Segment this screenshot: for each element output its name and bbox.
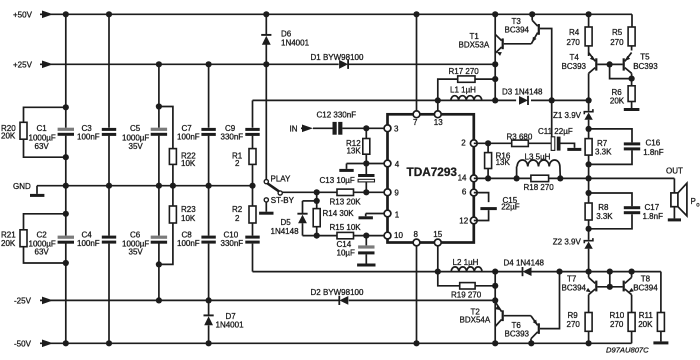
- svg-text:IN: IN: [290, 124, 298, 133]
- wire -25V rail: [40, 299, 495, 301]
- node R21 taps: [63, 211, 69, 266]
- pin 8: [413, 239, 420, 246]
- svg-text:D4 1N4148: D4 1N4148: [504, 258, 545, 267]
- svg-text:R3 680: R3 680: [507, 132, 533, 141]
- wire D5 to pin10 wire: [302, 223, 304, 235]
- svg-text:14: 14: [458, 174, 467, 183]
- node pin7 rail junction: [413, 11, 419, 17]
- svg-text:R13 20K: R13 20K: [330, 197, 362, 206]
- node OUT junctions: [485, 175, 563, 181]
- pin 3: [384, 125, 391, 132]
- node R9 rail junction: [586, 340, 592, 346]
- svg-text:9: 9: [394, 188, 399, 197]
- svg-text:Z2 3.9V: Z2 3.9V: [553, 238, 582, 247]
- pin 13: [434, 111, 441, 118]
- node R22 gnd junction: [170, 183, 176, 189]
- resistor R16: [485, 143, 492, 178]
- svg-text:3.3K: 3.3K: [596, 212, 613, 221]
- label R2: [232, 205, 243, 223]
- resistor R6: [628, 79, 635, 108]
- diode D3: [519, 96, 528, 105]
- wire speaker gnd stub: [673, 207, 675, 219]
- label pin4: [395, 160, 400, 169]
- svg-text:100nF: 100nF: [177, 133, 200, 142]
- wire C7/C8 column: [208, 64, 210, 300]
- label pin10: [394, 231, 403, 240]
- wire T4-T5 base: [597, 63, 622, 65]
- label C2: [29, 231, 56, 257]
- label C17: [643, 203, 664, 221]
- label R16: [496, 151, 511, 167]
- node -25V arrow: [42, 297, 53, 305]
- label pin8: [414, 230, 419, 239]
- svg-text:R10: R10: [610, 311, 625, 320]
- label R19: [451, 291, 482, 300]
- wire upper feed: [253, 99, 589, 101]
- wire T1 column: [494, 14, 496, 100]
- wire C3/C4 column: [108, 14, 110, 343]
- label R13: [330, 197, 362, 206]
- label C10: [221, 231, 244, 249]
- svg-text:270: 270: [567, 320, 581, 329]
- wire R7 to OUT: [588, 164, 590, 193]
- svg-text:3: 3: [394, 124, 399, 133]
- label L1: [450, 86, 476, 95]
- resistor R21: [20, 214, 66, 263]
- svg-text:R23: R23: [181, 205, 196, 214]
- pin 7: [413, 111, 420, 118]
- svg-text:1N4001: 1N4001: [216, 321, 245, 330]
- svg-text:8: 8: [414, 230, 419, 239]
- wire T2 column: [494, 272, 496, 344]
- svg-text:2: 2: [235, 159, 240, 168]
- switch PLAY contact: [264, 180, 268, 184]
- node R7 bottom junction: [586, 161, 592, 167]
- ground ST-BY: [259, 212, 273, 215]
- wire C11 to gnd: [561, 143, 575, 148]
- svg-text:+50V: +50V: [13, 10, 33, 19]
- svg-text:R18 270: R18 270: [524, 183, 555, 192]
- svg-text:BC393: BC393: [562, 62, 587, 71]
- svg-text:PLAY: PLAY: [271, 174, 292, 183]
- label D3: [502, 87, 543, 96]
- svg-text:L2 1µH: L2 1µH: [453, 258, 479, 267]
- svg-text:7: 7: [413, 118, 418, 127]
- node pin3 wire junction: [363, 125, 369, 131]
- svg-text:1.8nF: 1.8nF: [643, 212, 664, 221]
- svg-text:T7: T7: [567, 274, 577, 283]
- label R15: [330, 223, 362, 232]
- svg-text:-25V: -25V: [14, 297, 32, 306]
- svg-text:ST-BY: ST-BY: [271, 196, 295, 205]
- inductor L1: [451, 96, 482, 101]
- svg-text:4: 4: [395, 160, 400, 169]
- wire C1/C2 column: [65, 14, 67, 343]
- svg-text:T8: T8: [641, 274, 651, 283]
- inductor L3: [517, 160, 561, 178]
- resistor R4: [585, 14, 592, 56]
- node C1 column junctions: [63, 11, 69, 346]
- label R9: [567, 311, 581, 329]
- pin 15: [434, 239, 441, 246]
- svg-text:C5: C5: [130, 124, 141, 133]
- svg-text:D5: D5: [281, 218, 292, 227]
- wire D6 column: [265, 14, 267, 179]
- label C15: [501, 196, 520, 212]
- wire R22-R23 link: [172, 164, 174, 206]
- wire T7-T8 base: [597, 286, 622, 288]
- svg-text:C6: C6: [130, 231, 141, 240]
- label R11: [638, 311, 653, 329]
- label C6: [122, 231, 149, 257]
- node pin8 rail junction: [413, 340, 419, 346]
- svg-text:63V: 63V: [35, 142, 50, 151]
- node D6 junctions: [263, 11, 269, 67]
- capacitor C1: [58, 128, 74, 136]
- svg-text:270: 270: [610, 320, 624, 329]
- pin 9: [384, 189, 391, 196]
- wire pin2 wire: [474, 142, 512, 144]
- label D6: [281, 29, 310, 47]
- diode D6: [261, 35, 271, 45]
- node pin10 junctions: [314, 233, 370, 239]
- svg-text:C1: C1: [37, 124, 48, 133]
- resistor R3: [512, 140, 529, 146]
- node C5 column junctions: [156, 61, 162, 303]
- capacitor C3: [102, 128, 116, 136]
- svg-text:R11: R11: [639, 311, 654, 320]
- label ST-BY: [271, 196, 295, 205]
- label C9: [221, 124, 244, 142]
- resistor R22: [169, 149, 176, 165]
- transistor T6: [531, 316, 540, 344]
- label D7: [216, 312, 245, 329]
- resistor R7: [585, 129, 592, 165]
- svg-text:20K: 20K: [1, 239, 16, 248]
- wire IN to C12: [313, 127, 333, 129]
- svg-text:L1 1µH: L1 1µH: [450, 86, 476, 95]
- label R8: [596, 203, 613, 221]
- label TDA7293: [407, 165, 458, 179]
- wire lower feed: [253, 272, 661, 313]
- svg-text:D3 1N4148: D3 1N4148: [502, 87, 543, 96]
- node R4 rail junction: [586, 11, 592, 17]
- node T2 column junctions: [492, 297, 498, 346]
- wire T6 base column: [540, 272, 560, 329]
- wire +50V rail: [40, 14, 632, 27]
- capacitor C5: [151, 128, 167, 136]
- svg-text:3.3K: 3.3K: [595, 147, 612, 156]
- label GND: [13, 182, 31, 191]
- svg-text:R9: R9: [568, 311, 579, 320]
- label R20: [1, 124, 16, 141]
- node R19 right junction: [492, 283, 498, 289]
- svg-text:BDX53A: BDX53A: [459, 41, 490, 50]
- capacitor C7: [201, 128, 215, 136]
- label pin3: [394, 124, 399, 133]
- node C7 column junctions: [206, 61, 212, 346]
- pin 10: [384, 232, 391, 239]
- node +50V arrow: [42, 11, 53, 19]
- label T7: [562, 274, 587, 292]
- resistor R5: [628, 27, 635, 51]
- capacitor C6: [151, 236, 167, 244]
- label R12: [346, 139, 361, 156]
- label R14: [323, 209, 355, 218]
- resistor R12: [363, 128, 370, 163]
- label +50V: [13, 10, 33, 19]
- label C14: [337, 240, 356, 257]
- svg-text:T5: T5: [640, 53, 650, 62]
- ground C14 gnd: [357, 264, 375, 267]
- svg-text:270: 270: [567, 38, 581, 47]
- diode D2: [339, 296, 348, 305]
- svg-text:R6: R6: [612, 88, 623, 97]
- capacitor C16: [589, 129, 641, 165]
- wire pin10 wire: [303, 235, 388, 237]
- svg-text:20K: 20K: [610, 97, 625, 106]
- label R17: [449, 67, 480, 76]
- svg-text:10K: 10K: [181, 214, 196, 223]
- svg-text:D2 BYW98100: D2 BYW98100: [311, 288, 364, 297]
- label R7: [595, 139, 612, 156]
- svg-text:100nF: 100nF: [77, 239, 100, 248]
- resistor R1: [249, 149, 256, 165]
- svg-text:13: 13: [434, 118, 443, 127]
- node Z1 bottom junction: [586, 126, 592, 132]
- capacitor C17: [589, 193, 641, 229]
- ground pin4 gnd: [339, 169, 353, 172]
- speaker: [671, 183, 687, 216]
- wire pin15 stub: [437, 246, 439, 272]
- label pin6: [462, 188, 467, 197]
- svg-text:100nF: 100nF: [77, 133, 100, 142]
- label pin1: [395, 211, 400, 220]
- capacitor C15: [474, 193, 497, 221]
- label +25V: [13, 60, 33, 69]
- svg-text:13K: 13K: [346, 147, 361, 156]
- capacitor C9: [245, 128, 259, 136]
- wire pin4 wire: [347, 164, 388, 169]
- pin 2: [470, 140, 477, 147]
- label pin15: [433, 230, 442, 239]
- svg-text:Z1 3.9V: Z1 3.9V: [553, 111, 582, 120]
- node T3 collector junction: [529, 11, 535, 17]
- resistor R18: [531, 175, 549, 181]
- label R5: [610, 28, 624, 47]
- label pin7: [413, 118, 418, 127]
- svg-text:R15 10K: R15 10K: [330, 223, 362, 232]
- wire GND rail: [37, 186, 253, 194]
- label C13: [320, 176, 355, 185]
- transistor T7: [586, 272, 598, 313]
- ground pin1 gnd: [359, 216, 373, 219]
- capacitor C11: [551, 137, 560, 151]
- ground speaker gnd: [668, 218, 681, 221]
- label pin2: [461, 138, 466, 147]
- svg-text:22µF: 22µF: [501, 202, 520, 211]
- node C3 column junctions: [106, 11, 112, 346]
- label R4: [567, 28, 581, 47]
- node C9 gnd junction: [249, 183, 255, 189]
- svg-text:R4: R4: [569, 28, 580, 37]
- label D1: [311, 53, 364, 62]
- svg-text:D97AU807C: D97AU807C: [606, 346, 649, 355]
- node IN arrow: [301, 125, 313, 133]
- svg-text:2: 2: [461, 138, 466, 147]
- transistor T2: [495, 302, 504, 327]
- label -25V: [14, 297, 32, 306]
- wire C5/C6 column: [158, 64, 160, 300]
- label Z2: [553, 238, 582, 247]
- diode D4: [523, 267, 532, 276]
- label pin14: [458, 174, 467, 183]
- node +25V arrow: [42, 61, 53, 69]
- svg-text:C2: C2: [37, 231, 48, 240]
- label OUT: [666, 167, 683, 176]
- svg-text:1.8nF: 1.8nF: [643, 148, 664, 157]
- label -50V: [14, 340, 32, 349]
- op-amp U1 TDA7293 body: [388, 114, 474, 242]
- label T3: [505, 17, 530, 34]
- node base jog bottom: [607, 272, 613, 290]
- node R8 bottom junction: [586, 226, 592, 232]
- label T2: [460, 308, 491, 325]
- label D4: [504, 258, 545, 267]
- label pin13: [434, 118, 443, 127]
- svg-text:1N4148: 1N4148: [271, 227, 300, 236]
- resistor R19: [438, 272, 495, 289]
- svg-text:BDX54A: BDX54A: [460, 316, 491, 325]
- label T6: [505, 321, 530, 338]
- svg-text:C16: C16: [646, 138, 661, 147]
- label R3: [507, 132, 533, 141]
- svg-text:BC393: BC393: [633, 62, 658, 71]
- svg-text:2: 2: [235, 214, 240, 223]
- label R21: [1, 231, 16, 248]
- svg-text:330nF: 330nF: [221, 239, 244, 248]
- wire -50V rail: [40, 331, 632, 343]
- label C16: [643, 138, 664, 157]
- switch pole: [278, 191, 282, 195]
- diode D1: [339, 60, 348, 69]
- label C12: [317, 111, 357, 120]
- svg-text:63V: 63V: [35, 248, 50, 257]
- label T8: [633, 274, 658, 292]
- label R1: [232, 151, 243, 168]
- wire pin1 wire: [366, 214, 388, 217]
- label C11: [538, 127, 573, 136]
- svg-text:-50V: -50V: [14, 340, 32, 349]
- pin 1: [384, 210, 391, 217]
- label PLAY: [271, 174, 292, 183]
- transistor T1: [495, 34, 504, 56]
- switch arm: [267, 183, 279, 191]
- node -50V arrow: [42, 340, 53, 348]
- resistor R15: [337, 232, 354, 238]
- diode Z1: [584, 100, 593, 128]
- ground R6 gnd: [624, 108, 640, 111]
- label T5: [633, 53, 658, 71]
- node R20 taps: [63, 104, 69, 160]
- svg-text:+25V: +25V: [13, 60, 33, 69]
- node pin9 junctions: [314, 189, 370, 195]
- label C1: [29, 124, 56, 151]
- svg-text:BC394: BC394: [562, 284, 587, 293]
- capacitor C2: [58, 236, 74, 244]
- node T6 collector junction: [528, 340, 534, 346]
- label R22: [181, 151, 196, 168]
- label figure code: [606, 346, 649, 355]
- wire +25V rail: [40, 63, 495, 65]
- label Z1: [553, 111, 582, 120]
- label C4: [77, 231, 100, 249]
- label C5: [122, 124, 149, 151]
- label pin9: [394, 188, 399, 197]
- label Po: [691, 197, 700, 208]
- capacitor C8: [201, 236, 215, 244]
- svg-text:o: o: [696, 202, 700, 208]
- wire pin13 stub: [437, 100, 439, 111]
- switch ST-BY contact: [264, 198, 268, 202]
- capacitor C4: [102, 236, 116, 244]
- resistor R17: [438, 76, 495, 101]
- svg-text:10µF: 10µF: [337, 248, 356, 257]
- capacitor C10: [245, 236, 259, 244]
- svg-text:10K: 10K: [181, 159, 196, 168]
- label C7: [177, 124, 200, 142]
- wire pin9 wire: [282, 191, 387, 193]
- svg-text:35V: 35V: [129, 248, 144, 257]
- svg-text:100nF: 100nF: [177, 239, 200, 248]
- wire R3 to C11: [528, 142, 551, 144]
- diode D7: [204, 300, 214, 343]
- svg-text:R2: R2: [232, 205, 243, 214]
- resistor R14: [313, 209, 320, 236]
- wire T3 base column: [540, 29, 552, 137]
- resistor R23: [169, 206, 176, 223]
- ground C11 gnd: [567, 148, 581, 151]
- node R8 top junction: [586, 190, 592, 196]
- label R10: [610, 311, 625, 329]
- label C8: [177, 231, 200, 249]
- resistor R13: [337, 189, 354, 195]
- node upper feed junctions: [435, 97, 592, 103]
- svg-text:R5: R5: [612, 28, 623, 37]
- svg-text:P: P: [691, 197, 696, 206]
- resistor R9: [585, 313, 592, 344]
- pin 12: [470, 217, 477, 224]
- svg-text:C13 10µF: C13 10µF: [320, 176, 355, 185]
- label R6: [610, 88, 625, 106]
- node lower feed junctions: [435, 269, 635, 275]
- svg-text:330nF: 330nF: [221, 133, 244, 142]
- wire T2 base: [504, 315, 531, 317]
- resistor R10: [628, 313, 635, 332]
- ground GND symbol: [30, 194, 44, 197]
- svg-text:BC393: BC393: [505, 329, 530, 338]
- label D2: [311, 288, 364, 297]
- resistor R11: [657, 313, 664, 342]
- svg-text:270: 270: [610, 38, 624, 47]
- svg-text:1: 1: [395, 211, 400, 220]
- node pin4 junction: [363, 160, 369, 166]
- wire pin7 to +50V: [416, 14, 418, 111]
- svg-text:D1 BYW98100: D1 BYW98100: [311, 53, 364, 62]
- diode Z2: [584, 229, 593, 272]
- node pin2 junction: [485, 140, 491, 146]
- wire ST-BY stub: [265, 202, 267, 212]
